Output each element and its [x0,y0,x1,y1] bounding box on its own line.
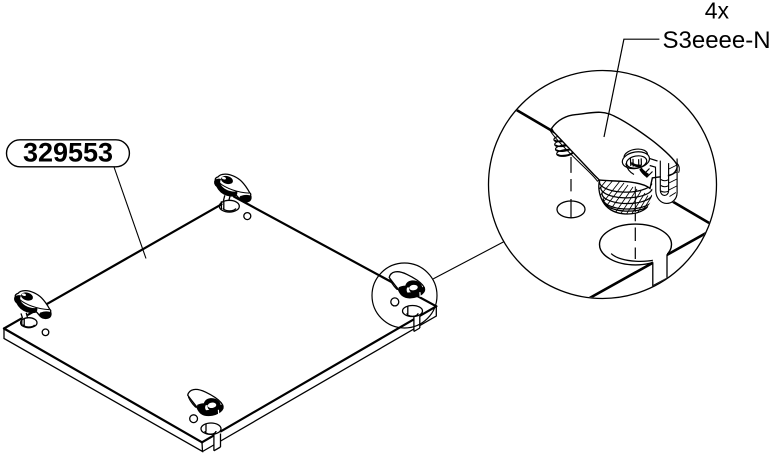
svg-text:S3eeee-N: S3eeee-N [663,27,771,54]
svg-text:329553: 329553 [23,137,113,167]
svg-text:4x: 4x [705,0,730,24]
